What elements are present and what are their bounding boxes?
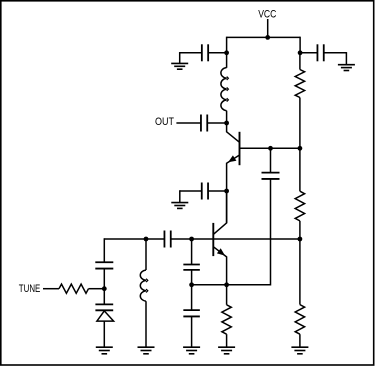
ground GND2 bbox=[338, 64, 355, 66]
inductor L2 bbox=[140, 270, 146, 301]
node Q1 base / C3 junction bbox=[268, 146, 273, 151]
varactor diode D1 bbox=[95, 303, 113, 305]
transistor Q1 emitter arrow bbox=[228, 155, 236, 162]
capacitor C2 (output coupling) bbox=[200, 115, 202, 132]
ground GND1 bbox=[171, 62, 188, 64]
capacitor C6 (base rail series) bbox=[163, 231, 165, 248]
wire C9 bottom lead bbox=[103, 269, 105, 289]
wire R1 bottom lead bbox=[299, 98, 301, 149]
transistor Q2 collector lead bbox=[213, 191, 226, 234]
node Q1 emitter bypass junction bbox=[224, 189, 229, 194]
capacitor C9 (tune blocking) bbox=[95, 261, 113, 263]
node divider tap lower bbox=[298, 237, 303, 242]
svg-text:VCC: VCC bbox=[258, 8, 276, 20]
wire R2 top lead bbox=[299, 148, 301, 191]
wire C2 right lead bbox=[207, 122, 226, 124]
wire varactor top lead bbox=[103, 289, 105, 305]
svg-text:OUT: OUT bbox=[155, 116, 174, 128]
wire C3 bottom lead down and left to emitter rail bbox=[227, 179, 271, 285]
node VCC junction bbox=[265, 35, 270, 40]
wire VCC stem bbox=[267, 19, 269, 37]
wire Q2 base rail right segment bbox=[171, 238, 300, 240]
ground GND3 bbox=[291, 346, 308, 348]
node Q2 emitter junction bbox=[224, 282, 229, 287]
wire C8 top lead bbox=[191, 285, 193, 310]
wire C5 right lead bbox=[324, 52, 347, 54]
wire left rail drop bbox=[226, 37, 228, 68]
wire C7 bottom lead bbox=[191, 270, 193, 285]
wire varactor bottom lead bbox=[103, 321, 105, 347]
capacitor C3 (feedback) bbox=[262, 172, 280, 174]
wire OUT lead bbox=[176, 122, 201, 124]
transistor Q2 base bar bbox=[212, 223, 214, 256]
wire R2 bottom lead bbox=[299, 221, 301, 239]
wire C8 bottom lead bbox=[191, 317, 193, 347]
wire right rail drop bbox=[299, 37, 301, 53]
ground GND8 bbox=[183, 346, 200, 348]
wire C1 right lead bbox=[208, 52, 226, 54]
node divider tap upper bbox=[298, 146, 303, 151]
capacitor C7 (divider upper) bbox=[183, 264, 200, 266]
transistor Q2 emitter lead bbox=[213, 247, 226, 285]
wire C9 top lead bbox=[103, 238, 105, 262]
wire emitter rail bbox=[192, 284, 227, 286]
inductor L1 bbox=[221, 68, 227, 111]
wire R3 bottom lead bbox=[299, 334, 301, 347]
capacitor C4 (emitter bypass) bbox=[201, 183, 203, 200]
node base rail / L2 junction bbox=[144, 237, 149, 242]
resistor R4 (emitter) bbox=[222, 305, 231, 334]
wire C5 left lead bbox=[300, 52, 318, 54]
transistor Q1 base bar bbox=[239, 132, 241, 165]
node OUT junction bbox=[224, 121, 229, 126]
ground GND4 bbox=[171, 202, 188, 204]
node top-right junction bbox=[298, 50, 303, 55]
node emitter rail left junction bbox=[189, 282, 194, 287]
wire R1 top lead bbox=[299, 53, 301, 70]
node top-left junction bbox=[224, 50, 229, 55]
wire L1 bottom lead bbox=[226, 111, 228, 123]
wire Q1 base to divider bbox=[240, 147, 300, 149]
wire R3 top lead bbox=[299, 239, 301, 305]
wire C7 top lead bbox=[191, 238, 193, 264]
capacitor C5 bbox=[316, 44, 318, 61]
wire C4 left lead bbox=[180, 190, 201, 192]
wire C4 right lead bbox=[209, 190, 227, 192]
node TUNE junction bbox=[102, 286, 107, 291]
capacitor C1 bbox=[201, 44, 203, 61]
wire R5 to junction bbox=[89, 288, 105, 290]
wire Q2 base rail left segment bbox=[104, 238, 164, 240]
resistor R5 (tune series) bbox=[59, 284, 89, 293]
wire TUNE lead bbox=[43, 288, 59, 290]
transistor Q1 collector lead bbox=[227, 123, 240, 142]
wire L2 top lead bbox=[145, 238, 147, 270]
resistor R3 bbox=[295, 305, 304, 335]
transistor Q2 emitter arrow bbox=[217, 248, 225, 255]
wire top supply rail bbox=[227, 36, 301, 38]
ground GND6 bbox=[96, 346, 113, 348]
capacitor C8 (divider lower) bbox=[183, 309, 200, 311]
svg-text:TUNE: TUNE bbox=[19, 283, 41, 295]
wire R4 bottom lead bbox=[226, 334, 228, 347]
resistor R2 bbox=[295, 191, 304, 221]
wire R4 top lead bbox=[226, 285, 228, 305]
wire L2 bottom lead bbox=[145, 301, 147, 347]
wire C1 left lead bbox=[180, 52, 202, 54]
ground GND7 bbox=[138, 346, 155, 348]
ground GND5 bbox=[218, 346, 235, 348]
transistor Q1 emitter lead bbox=[227, 155, 240, 223]
wire C3 top lead bbox=[270, 148, 272, 172]
resistor R1 bbox=[295, 70, 304, 98]
node base rail / C7 junction bbox=[189, 237, 194, 242]
